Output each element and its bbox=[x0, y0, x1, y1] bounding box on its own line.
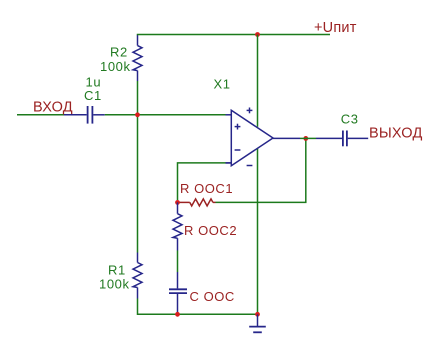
svg-text:X1: X1 bbox=[214, 77, 231, 92]
junction dot output bbox=[303, 136, 308, 141]
wire op-amp V- down to ground rail bbox=[257, 148, 259, 314]
svg-text:C3: C3 bbox=[341, 112, 359, 127]
junction dot top rail bbox=[255, 32, 260, 37]
op-amp V+ symbol bbox=[247, 108, 253, 114]
svg-text:C1: C1 bbox=[84, 88, 102, 103]
wire C1 to input junction bbox=[105, 114, 138, 116]
svg-text:ВЫХОД: ВЫХОД bbox=[369, 126, 422, 142]
wire R1 bottom to ground rail bbox=[138, 299, 258, 315]
junction dot ground rail left bbox=[175, 312, 180, 317]
wire feedback horizontal and up to output bbox=[216, 138, 306, 202]
junction dot feedback node bbox=[175, 200, 180, 205]
capacitor C OOC bbox=[169, 272, 187, 314]
op-amp +input symbol bbox=[235, 124, 241, 130]
resistor R OOC1 bbox=[178, 199, 216, 206]
resistor R1 bbox=[133, 253, 142, 299]
op-amp -input symbol bbox=[235, 149, 241, 151]
junction dot ground rail right bbox=[255, 312, 260, 317]
svg-text:100k: 100k bbox=[99, 276, 130, 291]
svg-text:R1: R1 bbox=[108, 263, 126, 278]
wire output to C3 bbox=[300, 137, 316, 139]
op-amp V- symbol bbox=[247, 165, 253, 167]
wire input left bbox=[17, 114, 64, 116]
wire R2 bottom to junction bbox=[137, 81, 139, 115]
op-amp X1 bbox=[231, 110, 273, 165]
svg-text:R ООС2: R ООС2 bbox=[184, 223, 237, 238]
wire top supply rail bbox=[137, 34, 330, 36]
op-amp input pin stubs bbox=[226, 115, 301, 163]
wire junction down to R1 bbox=[137, 115, 139, 253]
svg-text:R2: R2 bbox=[110, 45, 128, 60]
capacitor C3 bbox=[316, 131, 368, 147]
resistor R2 bbox=[133, 35, 142, 82]
svg-text:100k: 100k bbox=[100, 59, 131, 74]
junction dot input bbox=[135, 112, 140, 117]
resistor R OOC2 bbox=[173, 202, 182, 250]
wire junction to op-amp +input bbox=[138, 114, 226, 116]
wire R OOC2 to C OOC bbox=[177, 251, 179, 273]
wire V+ to op-amp bbox=[257, 35, 259, 127]
svg-text:+Uпит: +Uпит bbox=[314, 20, 357, 36]
svg-text:C ООС: C ООС bbox=[190, 289, 235, 304]
capacitor C1 bbox=[64, 106, 105, 124]
svg-text:R ООС1: R ООС1 bbox=[180, 181, 233, 196]
wire -input to feedback bbox=[226, 162, 232, 164]
ground bbox=[249, 314, 266, 332]
svg-text:ВХОД: ВХОД bbox=[33, 100, 73, 116]
